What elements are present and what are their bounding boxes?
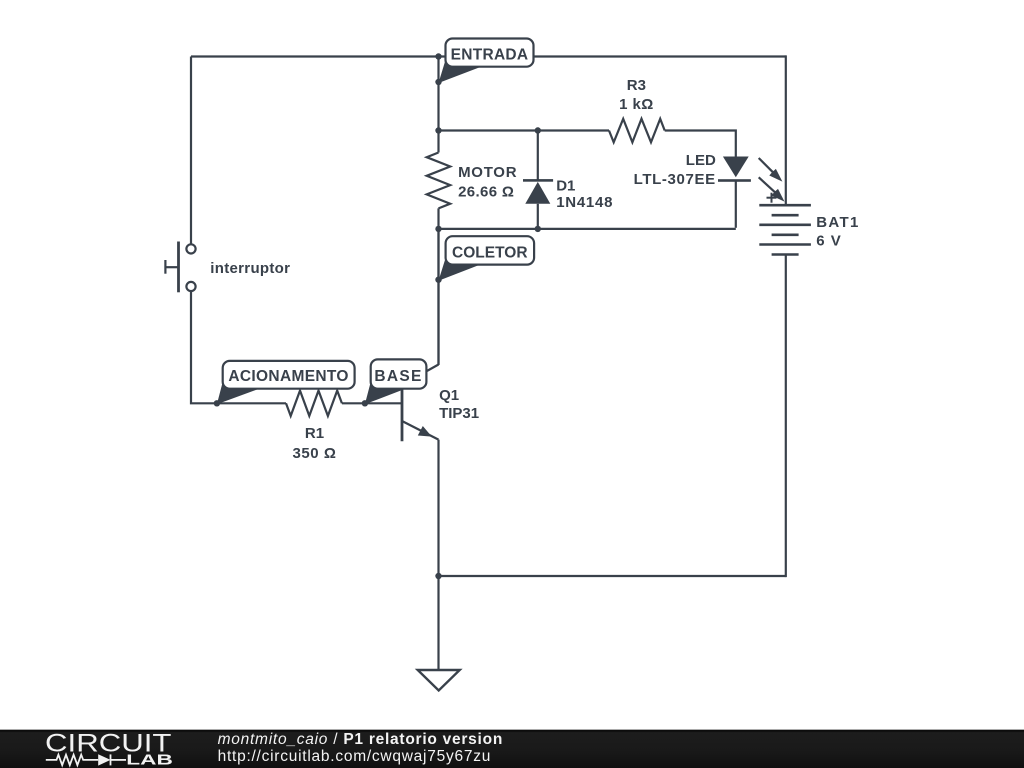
- wire top rail: [191, 55, 786, 57]
- svg-text:1N4148: 1N4148: [556, 194, 613, 211]
- svg-text:6 V: 6 V: [816, 233, 842, 250]
- node dot entrada top: [435, 53, 441, 59]
- transistor Q1: [402, 365, 439, 442]
- wire R1 to base: [342, 402, 402, 404]
- wire battery to bottom rail: [785, 255, 787, 578]
- wire switch top lead: [190, 57, 192, 245]
- diode D1 lead bottom: [537, 204, 539, 229]
- wire R3 to LED: [665, 131, 736, 157]
- wire switch bottom lead: [191, 291, 286, 403]
- svg-text:1 kΩ: 1 kΩ: [619, 96, 654, 113]
- wire LED cathode down: [735, 181, 737, 228]
- svg-text:COLETOR: COLETOR: [452, 245, 528, 262]
- pushbutton SW interruptor: [165, 242, 195, 293]
- battery plus sign: [767, 193, 777, 203]
- wire bottom rail: [438, 575, 786, 577]
- resistor R1: [286, 391, 342, 416]
- svg-text:interruptor: interruptor: [210, 260, 290, 277]
- svg-text:D1: D1: [556, 178, 575, 195]
- svg-text:LED: LED: [686, 152, 716, 169]
- flag COLETOR: [439, 236, 535, 281]
- node dot D1 bottom: [535, 226, 541, 232]
- svg-text:R1: R1: [305, 425, 324, 442]
- flag ENTRADA: [439, 39, 534, 84]
- node dot motor bottom: [435, 226, 441, 232]
- junction dots: [214, 53, 541, 579]
- node dot coletor anchor: [435, 277, 441, 283]
- diode D1 lead top: [537, 131, 539, 181]
- CircuitLab logo: [0, 729, 200, 768]
- svg-text:ACIONAMENTO: ACIONAMENTO: [228, 368, 348, 385]
- footer title text: [218, 731, 503, 748]
- logo resistor-diode art: [46, 754, 126, 765]
- diode D1 symbol: [523, 179, 553, 204]
- flag BASE: [365, 359, 427, 404]
- transistor Q1 emitter arrow: [418, 426, 432, 437]
- footer bar: [0, 729, 1024, 768]
- footer url text: [218, 748, 492, 765]
- wire collector vertical: [437, 228, 439, 365]
- wire bottom inner rail: [438, 228, 736, 230]
- flag ACIONAMENTO: [217, 361, 355, 404]
- LED light arrows: [759, 158, 778, 195]
- svg-text:BASE: BASE: [374, 368, 422, 385]
- wire entrada vertical: [437, 57, 439, 153]
- resistor MOTOR: [427, 153, 451, 209]
- svg-text:Q1: Q1: [439, 387, 459, 404]
- battery BAT1: [759, 205, 811, 254]
- wire emitter vertical: [437, 440, 439, 670]
- node dot base anchor: [362, 400, 368, 406]
- svg-text:LAB: LAB: [126, 751, 173, 768]
- node dot emitter rail: [435, 573, 441, 579]
- svg-text:LTL-307EE: LTL-307EE: [634, 171, 716, 188]
- svg-text:MOTOR: MOTOR: [458, 164, 517, 181]
- resistor R3: [609, 119, 665, 143]
- wire right drop to battery: [785, 55, 787, 205]
- wire motor bottom to collector: [437, 208, 439, 365]
- node dot D1 top: [535, 127, 541, 133]
- svg-text:ENTRADA: ENTRADA: [451, 47, 529, 64]
- node dot acionamento anchor: [214, 400, 220, 406]
- svg-text:26.66 Ω: 26.66 Ω: [458, 183, 514, 200]
- svg-text:TIP31: TIP31: [439, 405, 479, 422]
- LED symbol: [718, 157, 751, 182]
- svg-text:350 Ω: 350 Ω: [292, 445, 336, 462]
- svg-text:R3: R3: [627, 77, 646, 94]
- node dot entrada anchor: [435, 79, 441, 85]
- wire rail to R3: [438, 129, 610, 131]
- node dot motor top: [435, 127, 441, 133]
- svg-text:BAT1: BAT1: [816, 214, 860, 231]
- ground: [418, 670, 460, 691]
